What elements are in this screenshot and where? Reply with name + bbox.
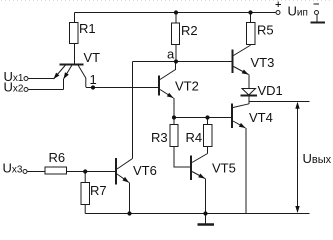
svg-text:a: a [167, 47, 175, 62]
svg-text:R2: R2 [181, 23, 198, 38]
svg-text:VT5: VT5 [212, 161, 236, 176]
svg-text:1: 1 [90, 72, 97, 87]
svg-text:VT: VT [84, 50, 101, 65]
svg-text:VT3: VT3 [251, 55, 275, 70]
svg-text:VT6: VT6 [133, 163, 157, 178]
svg-text:R6: R6 [49, 150, 66, 165]
svg-text:R4: R4 [186, 130, 203, 145]
svg-text:Uвых: Uвых [303, 151, 332, 166]
svg-text:R3: R3 [151, 130, 168, 145]
svg-text:R7: R7 [90, 183, 107, 198]
svg-text:R1: R1 [79, 21, 96, 36]
svg-text:VD1: VD1 [258, 83, 283, 98]
svg-text:VT2: VT2 [175, 79, 199, 94]
svg-text:VT4: VT4 [249, 110, 273, 125]
svg-text:R5: R5 [257, 23, 274, 38]
